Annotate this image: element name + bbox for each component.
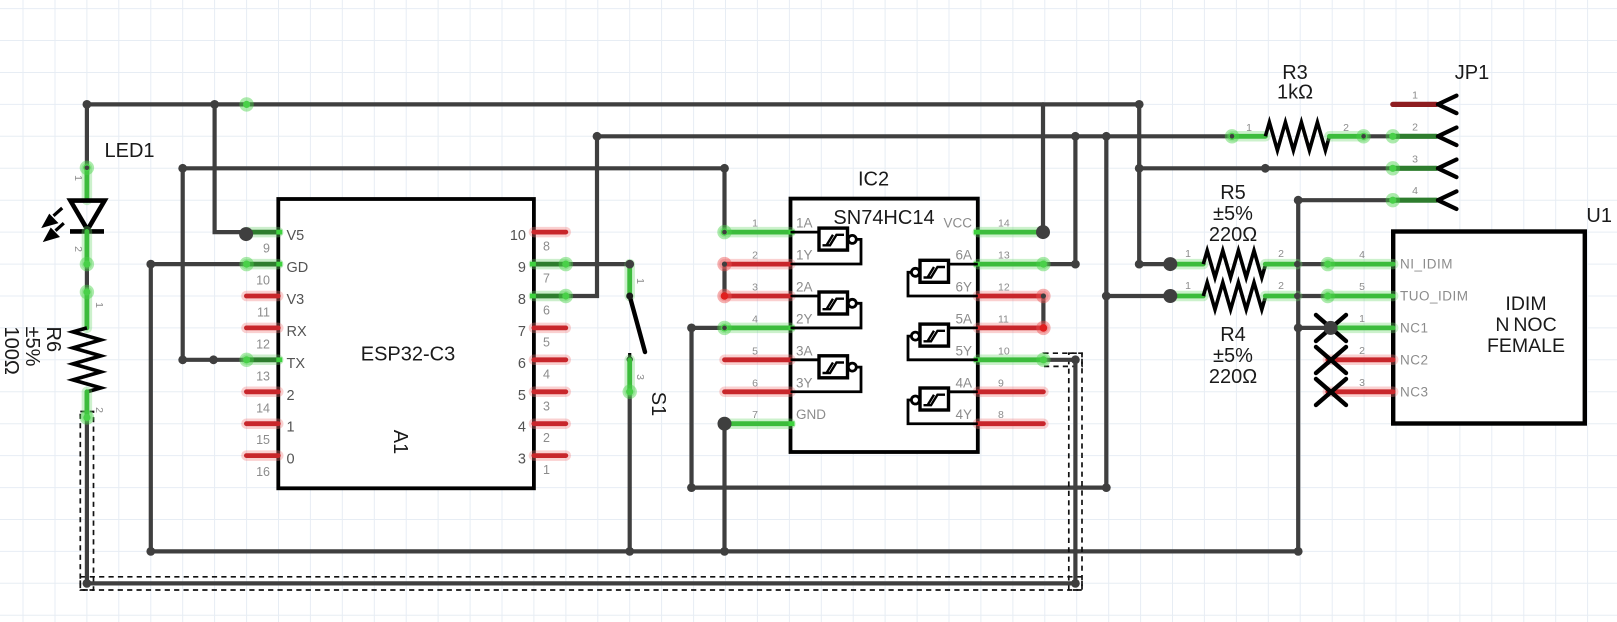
- IC2 pin 12 (6Y): [978, 291, 1044, 302]
- IC2 pin 9 (4A): [978, 387, 1044, 398]
- svg-text:9: 9: [998, 377, 1004, 389]
- svg-text:1: 1: [543, 463, 550, 477]
- svg-text:±5%: ±5%: [1213, 345, 1253, 367]
- wire ground rail up to JP1 pin 4: [1298, 200, 1393, 551]
- svg-text:5Y: 5Y: [955, 343, 972, 358]
- svg-text:5: 5: [543, 335, 550, 349]
- svg-text:LED1: LED1: [105, 140, 155, 162]
- svg-text:11: 11: [998, 313, 1009, 325]
- svg-text:5: 5: [752, 345, 758, 357]
- wire IC2 6Y to 5A link: [1041, 296, 1045, 328]
- wire net A1-pin8 / IC2-6A rail: [566, 136, 1232, 296]
- svg-text:14: 14: [998, 218, 1010, 230]
- svg-text:3: 3: [518, 452, 526, 468]
- JP1 pin 2: [1393, 134, 1437, 139]
- bend dots at R5/R4 pin2 wire ends: [1294, 261, 1300, 267]
- no-connect X on NC1: [1316, 315, 1346, 341]
- U1 pin 5 MIDI_OUT leg: [1328, 291, 1393, 302]
- svg-text:2A: 2A: [796, 280, 813, 295]
- A1 right pin 7 (9): [534, 259, 566, 270]
- microcontroller A1 ESP32-C3 body: [278, 199, 534, 488]
- LED LED1 pin 2 leg: [82, 231, 93, 264]
- U1 pin 3 NC3 leg: [1328, 387, 1393, 398]
- svg-text:2: 2: [1343, 122, 1349, 134]
- A1 left pin 9 (V5): [246, 227, 278, 238]
- svg-text:10: 10: [998, 345, 1010, 357]
- svg-text:4Y: 4Y: [955, 407, 972, 422]
- svg-text:1: 1: [752, 218, 758, 230]
- svg-text:5: 5: [518, 388, 526, 404]
- wire TX / IC2 1A net: [183, 168, 725, 359]
- IC2 inverter gate 4 (4A-4Y): [908, 388, 978, 424]
- svg-text:13: 13: [256, 369, 270, 383]
- svg-text:V3: V3: [287, 292, 305, 308]
- svg-text:RX: RX: [287, 324, 307, 340]
- svg-text:12: 12: [256, 337, 270, 351]
- svg-text:1: 1: [1246, 122, 1252, 134]
- svg-text:10: 10: [256, 274, 270, 288]
- resistor R3 pin 2 leg: [1329, 131, 1363, 142]
- A1 left pin 13 (TX): [246, 355, 278, 366]
- wire V5 rail down to R5 pin 1: [1139, 104, 1170, 264]
- svg-text:220Ω: 220Ω: [1209, 224, 1257, 246]
- svg-text:7: 7: [518, 324, 526, 340]
- svg-text:12: 12: [998, 282, 1010, 294]
- switch S1 pin 1 leg: [624, 264, 635, 296]
- svg-text:2: 2: [1412, 121, 1418, 133]
- wire V5 net top rail: [87, 102, 1139, 106]
- IC2 inverter gate 2 (2A-2Y): [791, 292, 862, 328]
- svg-text:3: 3: [1412, 153, 1418, 165]
- svg-text:JP1: JP1: [1455, 62, 1489, 84]
- IC2 inverter gate 5 (5A-5Y): [908, 324, 978, 360]
- svg-text:R6: R6: [42, 327, 64, 353]
- resistor R6 pin 2 leg: [82, 392, 93, 418]
- svg-text:4A: 4A: [955, 375, 972, 390]
- svg-text:2: 2: [543, 431, 550, 445]
- junction dot at A1 V5 pin: [239, 227, 253, 241]
- IC2 inverter gate 3 (3A-3Y): [791, 356, 862, 392]
- IC2 pin 2 (1Y): [725, 259, 791, 270]
- IC2 pin 4 (2Y): [725, 323, 791, 334]
- svg-text:TUO_IDIM: TUO_IDIM: [1400, 289, 1469, 304]
- no-connect X on NC2: [1316, 347, 1346, 373]
- svg-text:1Y: 1Y: [796, 248, 813, 263]
- IC2 SN74HC14 body: [791, 199, 978, 452]
- IC2 pin 6 (3Y): [725, 387, 791, 398]
- svg-text:IC2: IC2: [858, 169, 889, 191]
- svg-text:6: 6: [752, 377, 758, 389]
- svg-text:8: 8: [518, 292, 526, 308]
- svg-text:1: 1: [1359, 313, 1365, 325]
- svg-text:0: 0: [287, 452, 295, 468]
- LED LED1 pin 1 leg: [82, 168, 93, 200]
- IC2 pin 3 (2A): [725, 291, 791, 302]
- wire VCC branch to IC2 pin 14: [1041, 104, 1045, 232]
- IC2 inverter gate 6 (6A-6Y): [908, 260, 978, 296]
- svg-text:2: 2: [287, 388, 295, 404]
- resistor R4 pin 2 leg: [1265, 291, 1297, 302]
- A1 right pin 8 (10): [534, 227, 566, 238]
- switch S1 pin 3 leg: [624, 360, 635, 392]
- A1 right pin 1 (3): [534, 450, 566, 461]
- svg-text:2: 2: [93, 407, 105, 413]
- svg-text:R5: R5: [1220, 182, 1246, 204]
- IC2 pin 1 (1A): [725, 227, 791, 238]
- svg-text:16: 16: [256, 465, 270, 479]
- green connection dots: [239, 97, 253, 111]
- svg-text:±5%: ±5%: [21, 327, 43, 367]
- resistor R5 pin 1 leg: [1170, 259, 1203, 270]
- junction dot at U1 NC1 pin: [1324, 321, 1338, 335]
- junction dot at R4 pin 1: [1163, 289, 1177, 303]
- svg-text:9: 9: [263, 242, 270, 256]
- svg-text:7: 7: [543, 272, 550, 286]
- A1 left pin 12 (RX): [246, 323, 278, 334]
- wire V5 branch to JP1 pin 3: [1139, 166, 1393, 170]
- svg-text:2Y: 2Y: [796, 311, 813, 326]
- A1 left pin 10 (GD): [246, 259, 278, 270]
- wire branch to R4 pin 1 and IC2 2Y: [692, 136, 1107, 487]
- LED LED1 triangle and cathode bar: [70, 201, 105, 232]
- resistor R4 zigzag body: [1203, 283, 1265, 310]
- wire LED1 anode drop: [85, 104, 89, 167]
- resistor R3 zigzag body: [1265, 122, 1329, 150]
- A1 left pin 15 (1): [246, 418, 278, 429]
- svg-text:8: 8: [998, 409, 1004, 421]
- svg-text:4: 4: [543, 367, 550, 381]
- svg-text:1: 1: [72, 175, 84, 181]
- svg-text:6Y: 6Y: [955, 280, 972, 295]
- IC2 pin 13 (6A): [978, 259, 1044, 270]
- svg-text:1: 1: [287, 420, 295, 436]
- svg-text:5A: 5A: [955, 311, 972, 326]
- svg-text:NC2: NC2: [1400, 352, 1429, 367]
- svg-text:IDIM: IDIM: [1505, 293, 1546, 315]
- svg-text:2: 2: [752, 250, 758, 262]
- wire R4 pin1 stub: [1106, 294, 1170, 298]
- svg-text:NC3: NC3: [1400, 384, 1429, 399]
- no-connect X on NC3: [1316, 379, 1346, 405]
- svg-text:6: 6: [518, 356, 526, 372]
- svg-text:2: 2: [1278, 248, 1284, 260]
- svg-text:9: 9: [518, 260, 526, 276]
- svg-text:13: 13: [998, 250, 1010, 262]
- wire S1 pin3 down to ground rail: [628, 392, 632, 552]
- svg-text:15: 15: [256, 433, 270, 447]
- wire V5 branch to A1 pin V5: [215, 104, 247, 232]
- U1 pin 2 NC2 leg: [1328, 355, 1393, 366]
- svg-text:220Ω: 220Ω: [1209, 366, 1257, 388]
- JP1 pin 3: [1393, 166, 1437, 171]
- A1 left pin 14 (2): [246, 387, 278, 398]
- svg-text:3: 3: [1359, 377, 1365, 389]
- svg-text:6A: 6A: [955, 248, 972, 263]
- svg-text:3: 3: [752, 282, 758, 294]
- svg-text:S1: S1: [647, 392, 669, 416]
- wire R3 pin2 to JP1 pin 2: [1364, 134, 1393, 138]
- svg-text:100Ω: 100Ω: [0, 327, 22, 375]
- svg-text:1: 1: [1412, 89, 1418, 101]
- resistor R5 pin 2 leg: [1265, 259, 1297, 270]
- svg-text:2: 2: [72, 246, 84, 252]
- IC2 inverter gate 1 (1A-1Y): [791, 228, 862, 264]
- svg-text:±5%: ±5%: [1213, 203, 1253, 225]
- svg-text:3: 3: [634, 374, 646, 380]
- JP1 pin 4: [1393, 198, 1437, 203]
- resistor R4 pin 1 leg: [1170, 291, 1203, 302]
- IC2 pin 10 (5Y): [978, 355, 1044, 366]
- resistor R3 pin 1 leg: [1232, 131, 1265, 142]
- LED LED1 emitted light arrows: [45, 208, 64, 240]
- wire GD to ground rail: [151, 264, 1298, 551]
- svg-text:GD: GD: [287, 260, 309, 276]
- U1 pin 4 MIDI_IN leg: [1328, 259, 1393, 270]
- svg-text:U1: U1: [1586, 205, 1612, 227]
- svg-text:A1: A1: [389, 430, 411, 454]
- svg-text:10: 10: [510, 228, 526, 244]
- A1 right pin 5 (7): [534, 323, 566, 334]
- selected wire IC2 5Y to R6 pin 2 with dashed highlight outline: [80, 353, 1082, 590]
- svg-text:1: 1: [1185, 248, 1191, 260]
- svg-text:3: 3: [543, 399, 550, 413]
- A1 left pin 11 (V3): [246, 291, 278, 302]
- IC2 pin 8 (4Y): [978, 418, 1044, 429]
- red unconnected endpoint dots: [717, 257, 731, 271]
- A1 right pin 2 (4): [534, 418, 566, 429]
- resistor R6 pin 1 leg: [82, 292, 93, 328]
- wire R5 pin2 to U1 MIDI_IN: [1297, 262, 1328, 266]
- svg-text:7: 7: [752, 409, 758, 421]
- resistor R5 zigzag body: [1203, 251, 1265, 278]
- svg-text:R4: R4: [1220, 324, 1246, 346]
- svg-text:ESP32-C3: ESP32-C3: [361, 344, 456, 366]
- A1 left pin 16 (0): [246, 450, 278, 461]
- svg-text:8: 8: [543, 240, 550, 254]
- junction dot at IC2 GND pin: [718, 417, 732, 431]
- svg-text:5: 5: [1359, 281, 1365, 293]
- svg-text:3Y: 3Y: [796, 375, 813, 390]
- svg-text:GND: GND: [796, 407, 826, 422]
- JP1 pin 1: [1393, 102, 1437, 107]
- A1 right pin 4 (6): [534, 355, 566, 366]
- wire ground branch to U1 NC1: [1298, 326, 1330, 330]
- svg-text:2: 2: [1359, 345, 1365, 357]
- svg-text:V5: V5: [287, 228, 305, 244]
- svg-text:2: 2: [1278, 280, 1284, 292]
- wire IC2 1Y to 2A link: [722, 264, 726, 296]
- svg-text:FEMALE: FEMALE: [1487, 335, 1565, 357]
- svg-text:6: 6: [543, 304, 550, 318]
- svg-text:14: 14: [256, 401, 270, 415]
- svg-text:1: 1: [1185, 280, 1191, 292]
- wire LED cathode to R6: [85, 264, 89, 292]
- svg-text:1kΩ: 1kΩ: [1277, 82, 1313, 104]
- svg-text:4: 4: [1412, 185, 1418, 197]
- IC2 pin 11 (5A): [978, 323, 1044, 334]
- IC2 pin 14 (VCC): [978, 227, 1044, 238]
- wire IC2 GND down to ground rail: [722, 424, 726, 552]
- svg-text:SN74HC14: SN74HC14: [833, 207, 934, 229]
- junction dot at IC2 VCC pin: [1036, 225, 1050, 239]
- svg-text:4: 4: [518, 420, 526, 436]
- svg-text:NI_IDIM: NI_IDIM: [1400, 257, 1453, 272]
- svg-text:3A: 3A: [796, 343, 813, 358]
- svg-text:1: 1: [93, 302, 105, 308]
- A1 right pin 6 (8): [534, 291, 566, 302]
- IC2 pin 5 (3A): [725, 355, 791, 366]
- wire A1 pin9 to S1: [566, 262, 630, 266]
- bendpoint dots on wires: [83, 100, 92, 109]
- svg-text:4: 4: [752, 313, 758, 325]
- svg-text:VCC: VCC: [943, 216, 972, 231]
- wire IC2 6A branch: [1043, 136, 1075, 264]
- IC2 pin 7 (GND): [725, 418, 791, 429]
- svg-text:1A: 1A: [796, 216, 813, 231]
- junction dot at R5 pin 1: [1163, 257, 1177, 271]
- svg-text:N NOC: N NOC: [1495, 314, 1556, 336]
- connector U1 MIDI body: [1393, 232, 1585, 424]
- svg-text:4: 4: [1359, 249, 1365, 261]
- A1 right pin 3 (5): [534, 387, 566, 398]
- resistor R6 zigzag body: [73, 328, 101, 392]
- wire R4 pin2 to U1 MIDI_OUT: [1297, 294, 1328, 298]
- svg-text:TX: TX: [287, 356, 306, 372]
- svg-text:1: 1: [634, 278, 646, 284]
- svg-text:11: 11: [257, 306, 270, 320]
- switch S1 lever: [630, 296, 645, 352]
- svg-text:NC1: NC1: [1400, 320, 1429, 335]
- U1 pin 1 NC1 leg: [1331, 323, 1394, 334]
